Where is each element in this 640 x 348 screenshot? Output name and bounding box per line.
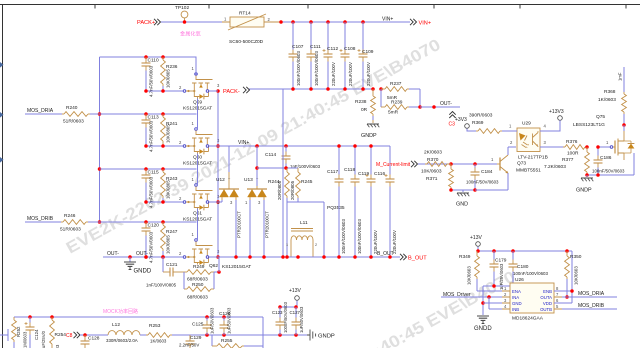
wire Q59 drain [195,57,197,76]
net label VIN+ (rail) [238,140,249,146]
svg-text:1mF: 1mF [618,72,623,81]
svg-text:M_Current-limit: M_Current-limit [376,162,411,168]
resistor R376 [551,139,587,157]
wire GNDP rail (Q75) [585,173,634,177]
wire snubber bottom [287,202,345,257]
svg-text:U13: U13 [244,177,253,183]
resistor R243 [161,169,178,202]
resistor R236 [161,57,178,91]
svg-text:100nF/50V/0603: 100nF/50V/0603 [466,180,499,185]
svg-text:2K/0603: 2K/0603 [424,150,442,156]
svg-text:U12: U12 [216,177,225,183]
resistor R377 [544,147,589,175]
svg-text:68R/0603: 68R/0603 [187,295,208,301]
optocoupler U29 [508,121,548,161]
capacitor C119 [358,146,378,257]
wire decouple gnd [483,284,515,315]
svg-text:4.7nF/50V/0603: 4.7nF/50V/0603 [149,120,154,152]
svg-text:100nF/100V/0603: 100nF/100V/0603 [341,219,346,254]
svg-text:PACK+: PACK+ [137,20,155,26]
resistor R371 [421,164,453,190]
svg-text:GNDP: GNDP [361,133,377,139]
svg-text:U29: U29 [522,121,531,127]
svg-text:C120: C120 [148,223,160,229]
svg-text:1uF/50V/0603: 1uF/50V/0603 [210,307,215,334]
svg-text:C125: C125 [192,322,204,328]
svg-text:10K/0805: 10K/0805 [166,180,171,199]
wire source chain vertical [209,89,220,259]
wire PACK+ rail [161,21,410,23]
wire pin3 GND [483,302,502,304]
svg-text:ENB: ENB [543,289,552,294]
port C8 [66,332,80,339]
wire U12 anode to chain [218,201,222,203]
svg-text:R370: R370 [427,157,439,163]
svg-text:LBSS123LT1G: LBSS123LT1G [573,122,605,128]
svg-text:100nF/100V/0603: 100nF/100V/0603 [513,271,548,276]
net label OUT- b [136,251,148,257]
power +3V3 [455,117,470,131]
svg-text:PQ3535: PQ3535 [327,205,345,211]
svg-text:51R/0603: 51R/0603 [60,227,81,233]
svg-text:51R/0603: 51R/0603 [63,119,84,125]
svg-text:SC60-500CZ0D: SC60-500CZ0D [229,39,264,45]
svg-text:220uF/100V: 220uF/100V [348,62,353,86]
capacitor C110 [142,57,159,97]
capacitor C108 [340,22,356,89]
svg-text:C113: C113 [148,115,159,121]
resistor R239 [381,89,422,116]
svg-text:R246: R246 [64,213,76,219]
svg-text:GNDD: GNDD [474,326,492,332]
svg-text:MD18624GAA: MD18624GAA [512,316,544,322]
svg-text:R255: R255 [221,338,233,344]
svg-text:390R/0603: 390R/0603 [469,113,493,119]
transistor Q62 [179,232,251,270]
transistor Q61 [179,177,220,223]
capacitor C116 [374,146,397,257]
power +13V [470,235,482,251]
wire Q75 gate [596,145,610,149]
svg-text:C107: C107 [292,44,304,50]
transistor Q59 [179,66,220,112]
wire ENB/VDD [554,251,574,303]
svg-text:C118: C118 [344,167,355,173]
wire rail Q60 stage [100,112,197,116]
capacitor C120 [142,222,160,263]
junction dot gnd/pin3 [481,301,485,305]
svg-text:INA: INA [512,295,519,300]
wire rail Q62 stage [100,220,197,224]
svg-text:100nF/50V/0603: 100nF/50V/0603 [592,169,625,174]
net label B_OUT [377,251,394,257]
net label MOS_Driver [443,292,471,298]
svg-text:+13V: +13V [470,235,482,241]
wire MOS_DRIB out [562,308,617,310]
wire gate-drive left vertical [98,57,102,224]
annotation pink 2 [103,308,138,315]
port PACK- [223,87,250,95]
svg-text:5mR: 5mR [388,110,399,116]
net label OUT- (right) [440,101,452,107]
wire Q75 source [624,153,634,175]
svg-text:MOCK功率回路: MOCK功率回路 [103,308,138,315]
transistor Q75 [573,114,634,160]
wire gate Q62 [144,255,183,259]
svg-text:20R/0805: 20R/0805 [290,180,295,200]
capacitor C128 [81,335,100,348]
svg-text:OUTB: OUTB [540,307,552,312]
wire Q73 collector [508,147,516,155]
inductor L12 [106,322,140,343]
svg-text:OUT-: OUT- [136,251,148,257]
svg-text:B_OUT: B_OUT [408,256,427,262]
resistor R246 [25,213,100,233]
wire gate Q59 [144,89,183,93]
ground GNDD (U26) [474,316,492,332]
resistor R250 [184,257,221,301]
net stub 1mF [618,67,625,92]
svg-text:C115: C115 [148,170,159,176]
svg-text:10K/0603: 10K/0603 [421,169,442,175]
svg-text:220uF/100V: 220uF/100V [331,62,336,86]
wire inter-fet 2-3 [197,154,199,186]
wire bottom signal 2 [172,333,307,337]
svg-text:1uF/50V/0603: 1uF/50V/0603 [299,306,304,333]
svg-text:OUTA: OUTA [540,295,552,300]
svg-text:GNDP: GNDP [318,334,335,340]
svg-text:MMBT5551: MMBT5551 [516,168,541,174]
svg-text:R254: R254 [55,332,67,338]
junction R376/R377 [585,145,589,149]
svg-text:C184: C184 [481,169,493,175]
junction dots VIN+ top rail [279,20,365,24]
svg-text:VDD: VDD [543,301,552,306]
svg-text:R376: R376 [566,139,578,145]
svg-text:R249: R249 [193,264,205,270]
svg-text:VIN+: VIN+ [382,17,393,23]
ground GNDD (left) [124,257,152,275]
wire gate Q61 [144,200,183,204]
net label VIN+ (top) [382,17,393,23]
wire rail Q61 stage [100,167,197,171]
capacitor C126 [219,307,232,335]
wire gate Q60 [144,144,183,148]
svg-text:0R: 0R [361,107,368,113]
resistor R249 [184,264,214,283]
svg-text:C128: C128 [88,336,100,342]
svg-text:GNDD: GNDD [134,269,152,275]
wire Q73 emitter [475,173,508,190]
svg-text:LTV-217TP1B: LTV-217TP1B [518,154,548,160]
svg-text:PACK-: PACK- [223,89,240,95]
svg-text:C108: C108 [344,46,356,52]
resistor R349 [459,251,479,291]
svg-text:R247: R247 [166,229,178,235]
svg-text:2: 2 [315,243,317,247]
wire GND rail (Q73) [449,188,508,192]
capacitor C123 [272,301,288,335]
wire ENA [477,290,502,292]
resistor R240 [25,105,100,125]
wire rail Q59 stage [100,55,197,59]
svg-text:MOS_DRIA: MOS_DRIA [27,108,54,114]
power +13V3 [548,109,564,131]
svg-text:10K/0603: 10K/0603 [574,266,579,285]
capacitor C179 [490,251,507,290]
svg-text:R252: R252 [16,326,21,337]
wire MOS_Driver [441,295,502,309]
capacitor C117 [327,146,346,257]
svg-text:10K/0805: 10K/0805 [166,235,171,254]
port PACK+ [137,19,161,26]
inductor L11 [286,220,317,257]
svg-text:C180: C180 [517,264,529,270]
wire current limit [418,162,497,166]
wire bottom top-rail [14,315,263,348]
svg-text:uF/25V/0: uF/25V/0 [41,330,46,348]
svg-text:TP102: TP102 [175,5,189,11]
svg-text:C114: C114 [265,152,276,158]
net label MOS_DRIB (out) [578,303,605,309]
svg-text:100R: 100R [567,151,579,157]
svg-text:GND: GND [512,301,522,306]
svg-text:R369: R369 [472,120,484,126]
svg-text:100nF/100V/0603: 100nF/100V/0603 [314,51,319,86]
svg-text:RT14: RT14 [239,11,251,17]
svg-text:C111: C111 [310,44,321,50]
svg-text:GND: GND [456,202,468,208]
svg-text:7.2K/0603: 7.2K/0603 [544,164,566,170]
svg-text:4.7nF/50V/0603: 4.7nF/50V/0603 [149,176,154,208]
svg-text:L12: L12 [112,322,120,328]
resistor R350 [565,251,582,299]
svg-text:金属化氧: 金属化氧 [180,30,201,38]
svg-text:C112: C112 [327,46,338,52]
wire bottom signal [80,333,108,337]
resistor R245 [290,168,313,202]
svg-text:OUT-: OUT- [440,101,452,107]
svg-text:100nF/50V/0603: 100nF/50V/0603 [283,301,288,333]
capacitor C124 [25,317,47,348]
svg-text:Q62: Q62 [209,263,218,269]
ground GNDP (right) [576,175,593,194]
net label MOS_DRIA [27,108,54,114]
svg-text:+13V3: +13V3 [549,109,564,115]
svg-text:Q73: Q73 [517,161,526,167]
svg-text:KS12015GAT: KS12015GAT [222,264,251,270]
resistor R254 [50,317,67,348]
wire +13V rail [476,249,572,253]
wire PACK- / shunt bus [249,87,383,91]
svg-text:VIN+: VIN+ [238,140,249,146]
net label MOS_DRIA (out) [578,291,605,297]
resistor R237 [381,81,420,101]
svg-text:C8: C8 [66,333,73,339]
svg-text:PTR20100CT: PTR20100CT [237,211,242,238]
svg-text:4.7nF/50V/0603: 4.7nF/50V/0603 [149,231,154,263]
svg-text:10K/0603: 10K/0603 [467,266,472,285]
resistor R244 [268,168,289,202]
capacitor C109 [358,22,374,89]
resistor R255 [212,335,263,348]
svg-text:R240: R240 [66,105,78,111]
capacitor C121 [146,257,184,288]
svg-text:C179: C179 [495,258,507,264]
svg-text:C129: C129 [190,335,202,341]
wire inter-fet 1-2 [197,99,199,130]
port M_Current-limit [376,161,418,168]
svg-text:R236: R236 [166,64,178,70]
svg-text:Q75: Q75 [596,114,605,120]
capacitor C127 [290,306,305,335]
wire +13V bottom rail [278,305,298,309]
svg-text:1K/0603: 1K/0603 [150,339,167,344]
long vertical OUT- to B_OUT [282,89,284,257]
resistor R253 [140,323,172,344]
svg-text:R250: R250 [192,282,204,288]
svg-text:U26: U26 [515,277,524,283]
svg-text:GNDP: GNDP [576,188,592,194]
svg-text:+13V: +13V [289,288,301,294]
svg-text:+3V3: +3V3 [455,117,467,123]
resistor R370 [418,150,451,167]
transistor Q73 [491,155,541,174]
svg-text:R349: R349 [459,254,471,260]
svg-text:C117: C117 [327,169,338,175]
svg-text:VIN+: VIN+ [419,21,432,27]
resistor R369 [469,113,508,134]
svg-text:B_OUT: B_OUT [377,251,394,257]
net label MOS_DRIB [27,216,54,222]
svg-text:C124: C124 [34,329,39,340]
svg-text:10K/0805: 10K/0805 [166,124,171,143]
resistor R368 [598,89,626,125]
wire MOS_DRIA out [562,296,617,298]
capacitor C113 [142,114,159,152]
svg-text:R238: R238 [355,99,367,105]
ic U26 [502,277,562,322]
svg-text:100nF/100V/0603: 100nF/100V/0603 [357,219,362,254]
svg-text:68R/0603: 68R/0603 [187,277,208,283]
ground GND [456,190,469,208]
capacitor C186 [592,147,625,175]
svg-text:R371: R371 [426,176,438,182]
svg-text:R253: R253 [149,323,161,329]
svg-text:4.7nF/50V/0603: 4.7nF/50V/0603 [149,65,154,97]
svg-text:C109: C109 [362,49,374,55]
wire VIN+ rail [218,144,390,148]
port B_OUT [400,254,427,262]
capacitor C115 [142,169,159,208]
svg-text:R368: R368 [604,89,616,95]
svg-text:OUT-: OUT- [107,251,119,257]
resistor R247 [161,222,178,257]
resistor R238 [355,89,375,120]
capacitor C118 [344,146,362,257]
svg-text:1uF/50V/0603: 1uF/50V/0603 [227,307,232,334]
transistor Q60 [179,121,220,167]
capacitor C114 [265,146,321,169]
wire U29 pin3 out [548,146,565,148]
port VIN+ [410,19,431,27]
ground GNDP (bottom) [307,330,335,341]
watermark [63,36,518,348]
wire B_OUT rail [218,255,400,259]
svg-text:MOS_DRIB: MOS_DRIB [27,216,54,222]
svg-text:100nF/100V/0603: 100nF/100V/0603 [296,51,301,86]
test point TP102 [175,5,189,24]
wire snubber top [257,166,298,170]
net label OUT- a [107,251,119,257]
svg-text:R239: R239 [391,100,403,106]
svg-text:R350: R350 [570,254,582,260]
svg-text:C116: C116 [374,171,385,177]
svg-text:220uF/100V: 220uF/100V [366,62,371,86]
svg-text:C110: C110 [148,58,159,64]
power +13V (bottom) [289,288,301,307]
svg-text:2.2nF/50V: 2.2nF/50V [179,343,199,348]
svg-text:1M/0603: 1M/0603 [23,331,28,348]
ground GNDP (R238) [361,120,379,139]
capacitor C129 [179,335,202,348]
svg-text:R377: R377 [562,157,574,163]
wire L12-R253 [140,334,148,336]
svg-text:1: 1 [286,243,288,247]
wire OUT- (left) [103,255,183,259]
rectifier U13 [244,146,270,257]
capacitor C125 [192,307,215,335]
thermistor RT14 [222,11,281,46]
resistor R252 [12,317,28,348]
svg-text:R237: R237 [390,81,402,87]
port C3 (up) [449,112,456,128]
capacitor C111 [307,22,322,89]
svg-text:MOS_DRIA: MOS_DRIA [578,291,605,297]
svg-text:C123: C123 [272,310,283,315]
svg-text:10K/0805: 10K/0805 [166,69,171,88]
svg-text:1nF/100V/0805: 1nF/100V/0805 [146,283,177,288]
rectifier U12 [216,146,242,257]
svg-text:330R/0603/2.0A: 330R/0603/2.0A [106,338,138,343]
svg-text:1K/0603: 1K/0603 [598,97,616,103]
resistor R241 [161,114,178,146]
annotation pink [180,30,201,38]
capacitor C184 [466,164,499,190]
capacitor C112 [323,22,339,89]
svg-text:MOS_DRIB: MOS_DRIB [578,303,605,309]
svg-text:INB: INB [512,307,519,312]
svg-text:L11: L11 [300,220,308,226]
svg-text:PTR20100CT: PTR20100CT [265,211,270,238]
svg-text:R245: R245 [301,179,313,185]
svg-text:C119: C119 [358,171,369,177]
junction dots VIN+ rail caps [337,144,373,148]
wire left edge stub [0,329,8,341]
svg-text:C121: C121 [166,262,178,268]
svg-text:20R/0805: 20R/0805 [277,180,282,200]
svg-text:C186: C186 [600,155,612,161]
capacitor C180 [509,251,549,286]
capacitor C107 [289,22,304,89]
svg-text:ENA: ENA [512,289,521,294]
wire OUT- (right) [420,105,460,109]
wire inter-fet 3-4 [197,209,199,241]
